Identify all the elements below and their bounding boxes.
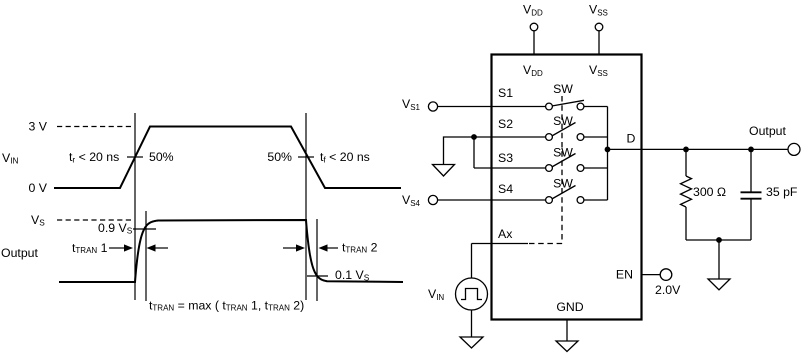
svg-text:2.0V: 2.0V <box>655 283 681 297</box>
svg-text:3 V: 3 V <box>29 120 48 134</box>
svg-text:50%: 50% <box>149 150 174 164</box>
svg-text:S3: S3 <box>498 151 513 165</box>
svg-text:tf < 20 ns: tf < 20 ns <box>320 150 370 165</box>
svg-text:SW: SW <box>553 82 573 96</box>
svg-text:0 V: 0 V <box>29 181 48 195</box>
svg-text:tr < 20 ns: tr < 20 ns <box>69 150 119 165</box>
svg-text:300 Ω: 300 Ω <box>693 185 726 199</box>
svg-text:GND: GND <box>556 300 583 314</box>
svg-text:Output: Output <box>749 124 786 138</box>
svg-text:50%: 50% <box>267 150 292 164</box>
svg-text:SW: SW <box>553 146 573 160</box>
svg-text:S2: S2 <box>498 117 513 131</box>
svg-text:D: D <box>627 132 636 146</box>
svg-text:S1: S1 <box>498 86 513 100</box>
svg-text:35 pF: 35 pF <box>766 185 798 199</box>
svg-text:Output: Output <box>1 246 38 260</box>
svg-text:S4: S4 <box>498 182 513 196</box>
svg-text:EN: EN <box>616 268 633 282</box>
svg-text:Ax: Ax <box>498 227 513 241</box>
